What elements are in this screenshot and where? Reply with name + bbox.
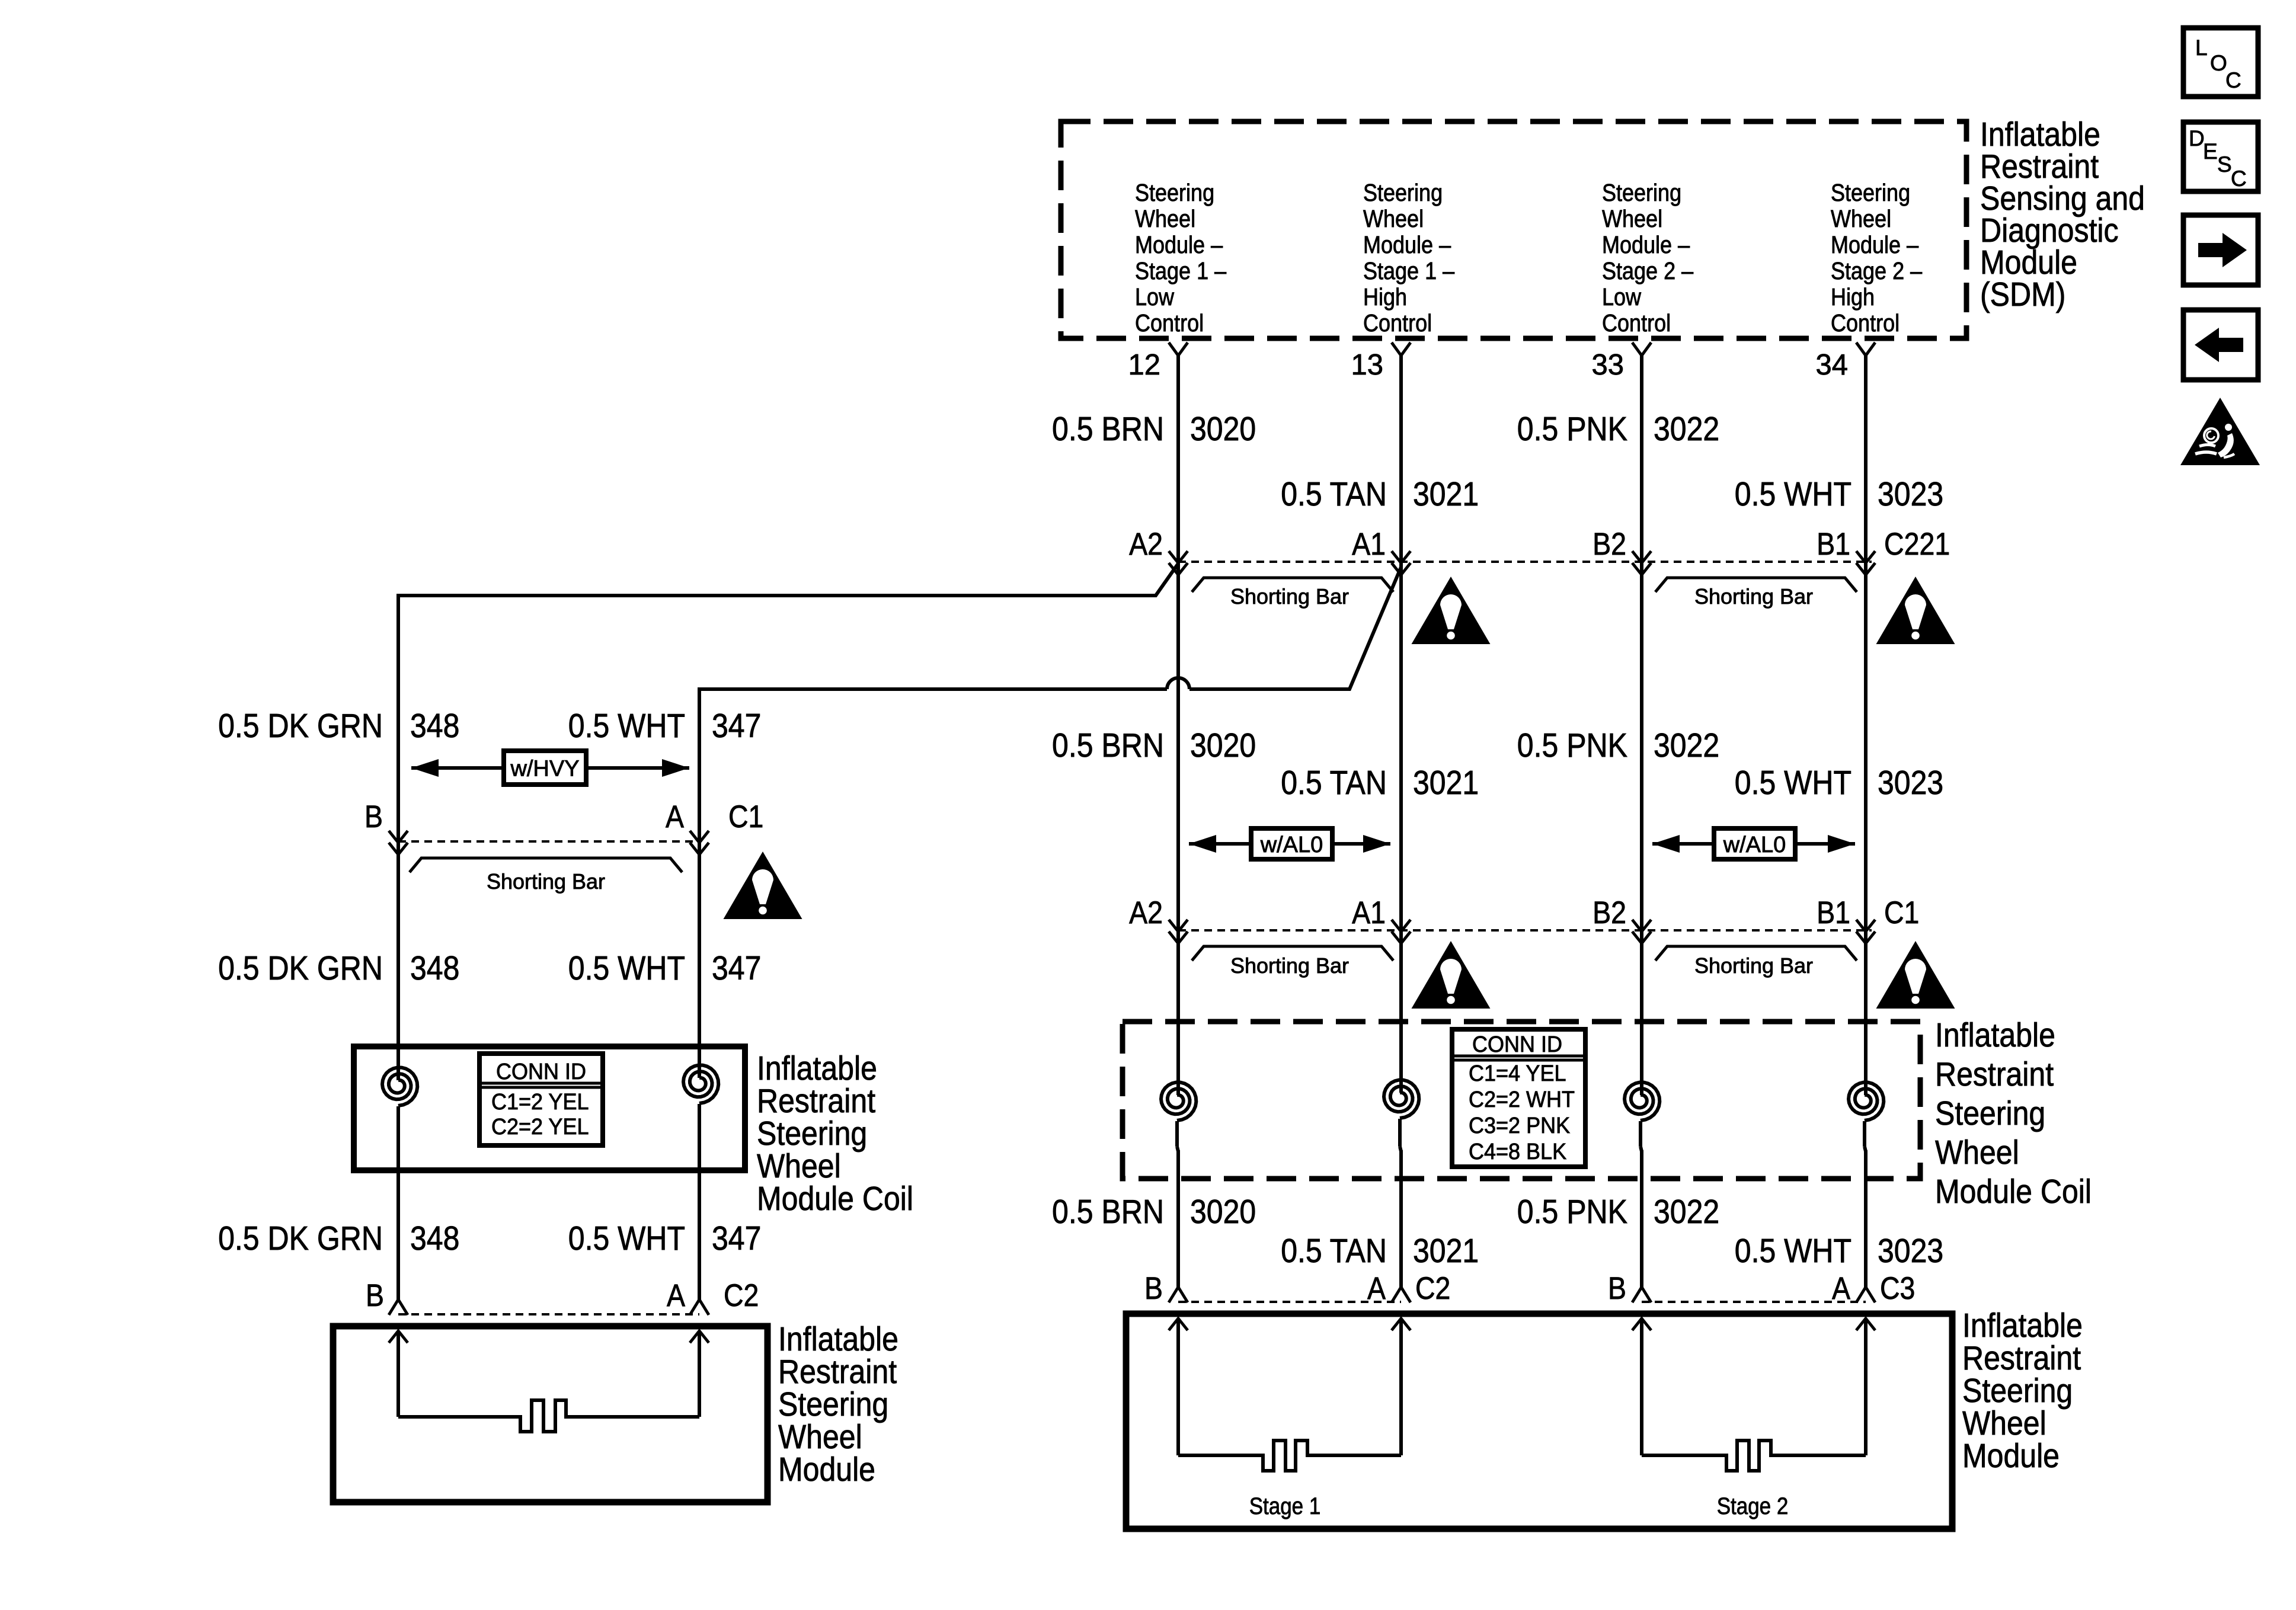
connector C1 terminal B1 — [1856, 920, 1875, 932]
svg-text:Stage 1 –: Stage 1 – — [1363, 257, 1454, 284]
wire 3023 WHT segment from SDM pin 34 to coil — [1864, 356, 1868, 1095]
left coil winding on wire 348 — [382, 1068, 417, 1106]
svg-text:0.5 WHT: 0.5 WHT — [568, 1219, 685, 1257]
coil winding on wire 3021 — [1384, 1080, 1419, 1119]
connector C2 left terminal B — [389, 1299, 398, 1315]
svg-text:Module –: Module – — [1602, 231, 1690, 258]
svg-text:CONN ID: CONN ID — [496, 1060, 586, 1084]
svg-text:348: 348 — [410, 949, 459, 987]
svg-text:33: 33 — [1592, 349, 1625, 381]
svg-text:Shorting Bar: Shorting Bar — [1694, 953, 1813, 978]
next page arrow icon — [2183, 215, 2258, 285]
svg-text:C2: C2 — [724, 1278, 759, 1313]
left squib input arrow B — [396, 1331, 400, 1417]
left squib input arrow A — [698, 1331, 701, 1417]
svg-text:High: High — [1363, 283, 1407, 311]
svg-text:w/AL0: w/AL0 — [1260, 833, 1323, 857]
w/AL0 option arrow between 3020 and 3021 — [1189, 842, 1390, 846]
svg-text:Inflatable: Inflatable — [1935, 1016, 2055, 1054]
svg-text:347: 347 — [712, 1219, 761, 1257]
svg-text:C3: C3 — [1880, 1271, 1915, 1306]
wire 348 segment to left coil — [396, 853, 400, 1080]
svg-text:C4=8 BLK: C4=8 BLK — [1469, 1140, 1566, 1164]
svg-text:High: High — [1831, 283, 1875, 311]
warning triangle at C1 A1 — [1412, 941, 1491, 1009]
svg-text:0.5 BRN: 0.5 BRN — [1052, 410, 1164, 448]
svg-text:Module Coil: Module Coil — [1935, 1173, 2092, 1211]
svg-text:C2: C2 — [1415, 1271, 1450, 1306]
svg-text:3022: 3022 — [1654, 410, 1719, 448]
coil winding on wire 3022 — [1625, 1083, 1659, 1121]
wire 347 segment from coil to module — [698, 1104, 701, 1299]
svg-text:3021: 3021 — [1413, 764, 1479, 802]
pin 13 connector symbol — [1392, 343, 1401, 356]
svg-text:0.5 PNK: 0.5 PNK — [1517, 726, 1627, 764]
svg-text:A1: A1 — [1352, 527, 1386, 562]
stage 2 squib input arrow B — [1640, 1318, 1643, 1455]
SDM module box (Inflatable Restraint Sensing and Diagnostic Module) — [1061, 121, 1966, 338]
connector C2 terminal B — [1169, 1287, 1178, 1302]
connector C2 left dashed line — [398, 1313, 699, 1315]
warning triangle at C1 B1 — [1876, 941, 1955, 1009]
svg-text:B: B — [366, 1278, 384, 1313]
connector C3 terminal B — [1632, 1287, 1642, 1302]
svg-text:B2: B2 — [1593, 527, 1626, 562]
wire 347 segment to left coil — [698, 853, 701, 1078]
left coil winding on wire 347 — [683, 1065, 718, 1104]
connector C2 terminal A — [1392, 1287, 1401, 1302]
svg-text:A2: A2 — [1129, 895, 1163, 930]
Inflatable Restraint Steering Wheel Module Coil left box — [354, 1046, 745, 1170]
wire 347 WHT vertical segment upper — [698, 687, 701, 930]
svg-text:Stage 1 –: Stage 1 – — [1135, 257, 1226, 284]
svg-text:Module: Module — [778, 1451, 875, 1489]
svg-text:0.5 BRN: 0.5 BRN — [1052, 726, 1164, 764]
svg-text:Shorting Bar: Shorting Bar — [487, 869, 605, 894]
svg-text:B: B — [1144, 1271, 1163, 1306]
pin 33 connector symbol — [1632, 343, 1642, 356]
svg-text:Wheel: Wheel — [1135, 205, 1195, 232]
pin 34 connector symbol — [1856, 343, 1866, 356]
svg-text:E: E — [2203, 139, 2218, 164]
svg-text:CONN ID: CONN ID — [1472, 1032, 1562, 1057]
left squib element — [398, 1400, 699, 1432]
svg-text:348: 348 — [410, 1219, 459, 1257]
CONN ID table for left coil — [479, 1054, 603, 1145]
svg-text:Restraint: Restraint — [1935, 1055, 2054, 1093]
Inflatable Restraint Steering Wheel Module Coil box (dashed) — [1123, 1022, 1920, 1179]
stage 1 squib element — [1178, 1441, 1401, 1471]
connector C221 terminal A1 — [1392, 551, 1411, 563]
connector C221 terminal B1 — [1856, 551, 1875, 563]
svg-text:C221: C221 — [1884, 527, 1950, 562]
warning triangle at left C1 — [724, 852, 802, 919]
svg-text:Low: Low — [1135, 283, 1174, 311]
svg-text:Steering: Steering — [1831, 179, 1910, 206]
svg-text:3020: 3020 — [1190, 1193, 1256, 1231]
svg-text:Wheel: Wheel — [1363, 205, 1424, 232]
svg-text:Shorting Bar: Shorting Bar — [1230, 584, 1349, 609]
coil winding on wire 3020 — [1161, 1083, 1196, 1121]
connector C221 terminal A2 — [1169, 551, 1188, 563]
svg-text:Wheel: Wheel — [1935, 1134, 2019, 1172]
svg-text:0.5 WHT: 0.5 WHT — [568, 707, 685, 745]
svg-text:A: A — [667, 1278, 686, 1313]
Inflatable Restraint Steering Wheel Module left box — [333, 1326, 768, 1502]
svg-text:w/AL0: w/AL0 — [1723, 833, 1786, 857]
warning triangle at C221 B1 — [1876, 577, 1955, 644]
w/AL0 option arrow between 3022 and 3023 — [1652, 842, 1855, 846]
shorting bar at C1 between B2 and B1 — [1655, 946, 1857, 961]
Inflatable Restraint Steering Wheel Module box — [1126, 1314, 1952, 1529]
svg-text:B: B — [1608, 1271, 1626, 1306]
svg-text:13: 13 — [1351, 349, 1384, 381]
svg-text:0.5 PNK: 0.5 PNK — [1517, 1193, 1627, 1231]
wire 3022 segment from coil to module connector — [1639, 1121, 1642, 1147]
svg-text:C1=2 YEL: C1=2 YEL — [491, 1090, 589, 1115]
svg-text:Stage 2: Stage 2 — [1717, 1493, 1789, 1519]
w/HVY option arrow between 348 and 347 — [411, 766, 689, 770]
svg-text:0.5 WHT: 0.5 WHT — [568, 949, 685, 987]
svg-text:348: 348 — [410, 707, 459, 745]
svg-text:3021: 3021 — [1413, 1232, 1479, 1270]
svg-text:A: A — [1832, 1271, 1851, 1306]
svg-text:3022: 3022 — [1654, 726, 1719, 764]
connector C1 terminal A1 — [1392, 920, 1411, 932]
svg-text:Steering: Steering — [1602, 179, 1681, 206]
svg-text:Stage 2 –: Stage 2 – — [1602, 257, 1693, 284]
pin 12 connector symbol — [1169, 343, 1178, 356]
svg-text:C: C — [2225, 68, 2241, 92]
wire 348 DK GRN vertical segment upper — [396, 594, 400, 930]
connector C2 dashed line (stage 1) — [1178, 1301, 1401, 1303]
stage 1 squib input arrow B — [1176, 1318, 1180, 1455]
svg-text:Wheel: Wheel — [1831, 205, 1891, 232]
svg-text:C: C — [2231, 167, 2247, 191]
svg-text:0.5 PNK: 0.5 PNK — [1517, 410, 1627, 448]
wire 3021 TAN segment from SDM pin 13 to coil — [1399, 356, 1403, 1093]
svg-text:0.5 WHT: 0.5 WHT — [1735, 764, 1851, 802]
connector C221 terminal B2 — [1632, 551, 1651, 563]
wire 3022 PNK segment from SDM pin 33 to coil — [1640, 356, 1643, 1095]
shorting bar at C1 between A2 and A1 — [1192, 946, 1393, 961]
wire 348 DK GRN branch: horizontal from left module to A2 junction — [398, 564, 1178, 596]
svg-text:3023: 3023 — [1878, 764, 1943, 802]
svg-text:C1: C1 — [1884, 895, 1919, 930]
svg-text:0.5 WHT: 0.5 WHT — [1735, 475, 1851, 513]
connector C3 terminal A — [1856, 1287, 1866, 1302]
svg-text:C2=2 WHT: C2=2 WHT — [1469, 1087, 1575, 1112]
svg-text:0.5 TAN: 0.5 TAN — [1281, 1232, 1387, 1270]
svg-text:3022: 3022 — [1654, 1193, 1719, 1231]
DESC icon box — [2183, 122, 2258, 191]
connector C1 terminal B2 — [1632, 920, 1651, 932]
svg-text:A1: A1 — [1352, 895, 1386, 930]
stage 2 squib input arrow A — [1864, 1318, 1868, 1455]
svg-text:C3=2 PNK: C3=2 PNK — [1469, 1113, 1570, 1138]
svg-text:w/HVY: w/HVY — [510, 757, 579, 782]
connector C3 dashed line (stage 2) — [1642, 1301, 1866, 1303]
svg-text:3023: 3023 — [1878, 1232, 1943, 1270]
svg-text:Stage 2 –: Stage 2 – — [1831, 257, 1922, 284]
svg-text:C1=4 YEL: C1=4 YEL — [1469, 1061, 1566, 1086]
svg-text:3021: 3021 — [1413, 475, 1479, 513]
svg-text:C2=2 YEL: C2=2 YEL — [491, 1115, 589, 1140]
wire 3021 segment from coil to module connector — [1398, 1119, 1402, 1147]
svg-text:Module: Module — [1962, 1437, 2060, 1475]
previous page arrow icon — [2183, 310, 2258, 380]
connector C2 left terminal A — [690, 1299, 699, 1315]
svg-text:0.5 TAN: 0.5 TAN — [1281, 475, 1387, 513]
svg-text:B1: B1 — [1817, 895, 1850, 930]
svg-text:Module –: Module – — [1363, 231, 1451, 258]
svg-text:0.5 DK GRN: 0.5 DK GRN — [218, 949, 383, 987]
connector C1 terminal A2 — [1169, 920, 1188, 932]
svg-text:A: A — [666, 799, 685, 834]
CONN ID table for coil connectors — [1452, 1029, 1585, 1167]
svg-text:Steering: Steering — [1935, 1094, 2045, 1132]
svg-text:Control: Control — [1602, 309, 1671, 337]
svg-text:Steering: Steering — [1363, 179, 1443, 206]
shorting bar at C221 between A2 and A1 — [1192, 578, 1393, 592]
svg-text:Control: Control — [1135, 309, 1204, 337]
svg-text:Shorting Bar: Shorting Bar — [1230, 953, 1349, 978]
svg-text:C1: C1 — [728, 799, 763, 834]
stage 1 squib input arrow A — [1399, 1318, 1403, 1455]
connector C1 dashed line — [1178, 929, 1872, 932]
svg-text:Control: Control — [1363, 309, 1432, 337]
shorting bar at left C1 — [410, 858, 682, 872]
svg-text:3023: 3023 — [1878, 475, 1943, 513]
shorting bar at C221 between B2 and B1 — [1655, 578, 1857, 592]
svg-text:0.5 WHT: 0.5 WHT — [1735, 1232, 1851, 1270]
svg-text:0.5 TAN: 0.5 TAN — [1281, 764, 1387, 802]
svg-text:Steering: Steering — [1135, 179, 1214, 206]
airbag warning triangle icon — [2180, 398, 2260, 465]
svg-text:3020: 3020 — [1190, 726, 1256, 764]
svg-text:O: O — [2210, 51, 2227, 75]
svg-text:D: D — [2189, 126, 2205, 151]
wire 347 WHT branch: horizontal from left module to A1 junction with hop over wire 3020 — [699, 687, 1167, 691]
svg-text:B2: B2 — [1593, 895, 1626, 930]
connector C1 left terminal A — [690, 831, 709, 843]
svg-text:Low: Low — [1602, 283, 1641, 311]
wire 348 segment from coil to module — [396, 1106, 400, 1299]
connector C1 left dashed line — [398, 840, 699, 843]
svg-text:Module Coil: Module Coil — [757, 1180, 913, 1218]
svg-text:S: S — [2217, 152, 2232, 177]
svg-text:(SDM): (SDM) — [1980, 276, 2065, 313]
svg-text:B: B — [364, 799, 383, 834]
svg-text:L: L — [2195, 36, 2208, 60]
wire 3020 segment from coil to module connector — [1175, 1121, 1179, 1147]
LOC icon box — [2183, 28, 2258, 97]
svg-text:A: A — [1367, 1271, 1386, 1306]
svg-text:Module –: Module – — [1135, 231, 1223, 258]
svg-text:B1: B1 — [1817, 527, 1850, 562]
stage 2 squib element — [1642, 1441, 1866, 1471]
svg-text:0.5 DK GRN: 0.5 DK GRN — [218, 707, 383, 745]
svg-text:Module –: Module – — [1831, 231, 1918, 258]
svg-text:A2: A2 — [1129, 527, 1163, 562]
wire 3023 segment from coil to module connector — [1863, 1121, 1866, 1147]
connector C221 dashed line — [1178, 561, 1872, 563]
svg-text:12: 12 — [1128, 349, 1161, 381]
svg-text:Stage 1: Stage 1 — [1249, 1493, 1321, 1519]
svg-text:Shorting Bar: Shorting Bar — [1694, 584, 1813, 609]
svg-text:3020: 3020 — [1190, 410, 1256, 448]
svg-text:34: 34 — [1816, 349, 1849, 381]
svg-text:0.5 BRN: 0.5 BRN — [1052, 1193, 1164, 1231]
svg-text:0.5 DK GRN: 0.5 DK GRN — [218, 1219, 383, 1257]
warning triangle at C221 A1 — [1412, 577, 1491, 644]
svg-text:347: 347 — [712, 707, 761, 745]
svg-text:Wheel: Wheel — [1602, 205, 1662, 232]
connector C1 left terminal B — [389, 831, 408, 843]
coil winding on wire 3023 — [1849, 1083, 1884, 1121]
svg-text:Control: Control — [1831, 309, 1900, 337]
svg-text:347: 347 — [712, 949, 761, 987]
wire 3020 BRN segment from SDM pin 12 to coil — [1176, 356, 1180, 1095]
